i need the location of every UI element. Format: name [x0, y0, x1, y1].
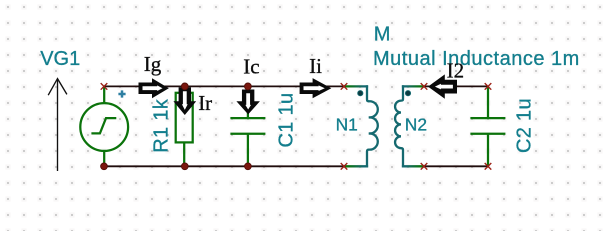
svg-text:VG1: VG1: [40, 48, 80, 70]
svg-text:C2 1u: C2 1u: [514, 98, 536, 153]
svg-text:N2: N2: [405, 114, 427, 134]
svg-text:Ic: Ic: [243, 55, 259, 79]
svg-text:N1: N1: [336, 114, 358, 134]
svg-text:I2: I2: [447, 59, 465, 83]
svg-text:Ii: Ii: [309, 54, 322, 78]
svg-text:Ig: Ig: [144, 52, 162, 76]
svg-text:C1 1u: C1 1u: [276, 93, 298, 148]
svg-text:Mutual Inductance 1m: Mutual Inductance 1m: [373, 48, 580, 70]
svg-text:M: M: [374, 24, 391, 46]
svg-text:R1 1k: R1 1k: [150, 98, 172, 152]
svg-text:Ir: Ir: [198, 91, 212, 115]
